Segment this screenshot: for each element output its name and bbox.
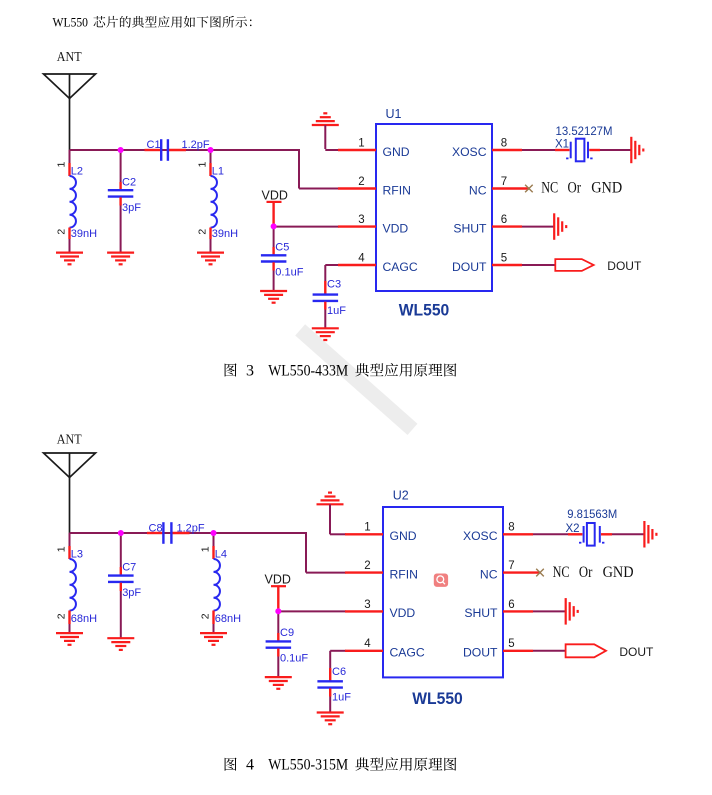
pin 4 CAGC (U1) (338, 252, 418, 273)
antenna ANT (fig2) (44, 453, 96, 533)
power VDD (fig2) (265, 573, 291, 612)
svg-text:2: 2 (364, 560, 370, 572)
svg-text:8: 8 (501, 137, 507, 149)
svg-text:9.81563M: 9.81563M (567, 509, 617, 521)
svg-text:U1: U1 (386, 107, 402, 121)
pin 1 GND (U1) (338, 137, 410, 158)
wire VDD to pin3 (fig1) (274, 226, 339, 228)
svg-text:NC: NC (469, 183, 487, 197)
node: junction at L4 (fig2) (211, 530, 217, 536)
wire pin6 to ground (fig2) (533, 610, 565, 612)
svg-text:C3: C3 (327, 279, 341, 291)
wire ground to pin1 (fig2) (330, 533, 346, 535)
node: junction at C2 (fig1) (118, 147, 124, 153)
antenna ANT (fig1) (44, 74, 96, 150)
svg-text:C7: C7 (122, 561, 136, 573)
pin 3 VDD (U2) (345, 599, 415, 620)
svg-text:1: 1 (364, 522, 370, 534)
svg-text:NC: NC (541, 180, 558, 197)
svg-text:4: 4 (358, 252, 365, 264)
svg-text:C8: C8 (149, 522, 163, 534)
svg-text:NC: NC (553, 564, 570, 581)
pin 5 DOUT (U2) (463, 638, 533, 659)
svg-text:3: 3 (364, 599, 370, 611)
svg-text:2: 2 (56, 229, 68, 235)
capacitor C6 1uF with wires (fig2) (317, 666, 351, 712)
capacitor C1 1.2pF (fig1) (145, 139, 210, 161)
svg-text:VDD: VDD (383, 221, 409, 235)
node: junction at C7 (fig2) (118, 530, 124, 536)
pin 7 NC (U1) (469, 176, 529, 197)
svg-text:WL550: WL550 (399, 301, 450, 320)
svg-text:ANT: ANT (57, 432, 82, 447)
svg-text:7: 7 (508, 560, 514, 572)
svg-text:C1: C1 (147, 139, 161, 151)
svg-text:4: 4 (246, 757, 254, 774)
ground under C7 (fig2) (107, 638, 134, 650)
svg-text:5: 5 (508, 638, 514, 650)
svg-text:SHUT: SHUT (453, 221, 487, 235)
svg-text:Or: Or (579, 564, 593, 581)
viewer search icon overlay (434, 574, 448, 587)
svg-text:2: 2 (197, 229, 209, 235)
svg-text:GND: GND (390, 529, 417, 543)
svg-text:68nH: 68nH (215, 613, 241, 625)
wire: antenna to RFIN net (fig1) (70, 149, 340, 189)
svg-text:1: 1 (200, 546, 212, 552)
pin 8 XOSC (U1) (452, 137, 522, 158)
pin 6 SHUT (U2) (464, 599, 533, 620)
svg-text:3: 3 (246, 362, 254, 379)
svg-text:NC: NC (480, 567, 498, 581)
svg-text:C5: C5 (275, 242, 289, 254)
svg-text:VDD: VDD (262, 189, 288, 203)
caption figure 3 (225, 362, 457, 379)
svg-text:XOSC: XOSC (463, 529, 498, 543)
svg-text:DOUT: DOUT (452, 260, 487, 274)
ground under C6 (fig2) (317, 713, 344, 725)
node: junction at L1 (fig1) (208, 147, 214, 153)
svg-text:39nH: 39nH (71, 228, 97, 240)
svg-text:1uF: 1uF (327, 305, 346, 317)
pin 1 GND (U2) (345, 522, 417, 543)
op-amp U1 chip WL550 (fig1) (376, 107, 492, 320)
svg-text:2: 2 (200, 613, 212, 619)
svg-text:Or: Or (568, 180, 582, 197)
svg-text:0.1uF: 0.1uF (275, 267, 303, 279)
wire: antenna to RFIN net (fig2) (70, 532, 347, 573)
svg-text:3pF: 3pF (122, 587, 141, 599)
svg-text:1: 1 (56, 162, 68, 168)
svg-text:6: 6 (508, 599, 514, 611)
ground under L4 (fig2) (200, 633, 227, 645)
svg-text:DOUT: DOUT (607, 259, 642, 273)
ground under L2 (fig1) (56, 253, 83, 265)
svg-text:RFIN: RFIN (390, 567, 418, 581)
ground under L1 (fig1) (197, 253, 224, 265)
svg-text:XOSC: XOSC (452, 145, 487, 159)
svg-text:CAGC: CAGC (390, 646, 425, 660)
svg-text:WL550-315M: WL550-315M (268, 757, 348, 774)
capacitor C9 0.1uF with wires (fig2) (266, 611, 309, 677)
svg-text:L1: L1 (212, 166, 224, 178)
pin 2 RFIN (U1) (338, 176, 411, 197)
svg-text:X1: X1 (555, 139, 569, 151)
svg-text:VDD: VDD (265, 573, 291, 587)
pin 8 XOSC (U2) (463, 522, 533, 543)
svg-text:2: 2 (358, 176, 364, 188)
wire VDD to pin3 (fig2) (278, 610, 346, 612)
pin 4 CAGC (U2) (345, 638, 425, 659)
ground under C2 (fig1) (107, 253, 134, 265)
svg-text:DOUT: DOUT (619, 645, 654, 659)
capacitor C8 1.2pF (fig2) (147, 522, 205, 544)
capacitor C7 3pF with wires (fig2) (108, 533, 141, 638)
svg-text:4: 4 (364, 638, 371, 650)
svg-text:1uF: 1uF (332, 692, 351, 704)
svg-text:DOUT: DOUT (463, 646, 498, 660)
svg-text:U2: U2 (393, 489, 409, 503)
svg-text:3pF: 3pF (122, 202, 141, 214)
ground at SHUT (fig1) (554, 213, 566, 240)
svg-text:SHUT: SHUT (464, 606, 498, 620)
header text (53, 14, 252, 29)
no-connect X at pin7 (fig2) (536, 569, 544, 577)
svg-text:7: 7 (501, 176, 507, 188)
svg-text:68nH: 68nH (71, 613, 97, 625)
svg-text:1.2pF: 1.2pF (182, 139, 210, 151)
op-amp U2 chip WL550 (fig2) (383, 489, 503, 708)
inductor L1 with wires (fig1) (197, 150, 238, 253)
svg-text:C6: C6 (332, 666, 346, 678)
port DOUT (fig2) (566, 644, 654, 659)
ANT label (fig2) (57, 432, 82, 447)
wire pin6 to ground (fig1) (522, 226, 554, 228)
ground right of X1 (fig1) (631, 137, 643, 163)
capacitor C3 1uF with wires (fig1) (313, 279, 347, 329)
svg-text:0.1uF: 0.1uF (280, 653, 308, 665)
svg-text:GND: GND (603, 564, 634, 581)
svg-text:C2: C2 (122, 176, 136, 188)
ground at SHUT (fig2) (566, 598, 578, 625)
crystal X2 9.81563M (fig2) (533, 509, 644, 545)
svg-text:C9: C9 (280, 627, 294, 639)
ground under L3 (fig2) (56, 633, 83, 645)
no-connect X at pin7 (fig1) (525, 185, 533, 193)
NC Or GND label (fig2) (553, 564, 634, 581)
inverted ground above chip (fig1) (312, 113, 339, 149)
caption figure 4 (225, 757, 457, 774)
inductor L4 with wires (fig2) (200, 533, 241, 633)
pin 3 VDD (U1) (338, 214, 408, 235)
wire pin4 to C6 (fig2) (330, 651, 346, 668)
svg-text:GND: GND (383, 145, 410, 159)
pin 7 NC (U2) (480, 560, 540, 581)
svg-text:6: 6 (501, 214, 507, 226)
svg-text:1: 1 (358, 137, 364, 149)
ground under C9 (fig2) (265, 677, 292, 689)
svg-text:ANT: ANT (57, 49, 82, 64)
svg-text:VDD: VDD (390, 606, 416, 620)
pin 5 DOUT (U1) (452, 252, 522, 273)
capacitor C2 3pF with wires (fig1) (108, 150, 141, 253)
ground right of X2 (fig2) (644, 521, 656, 548)
wire ground to pin1 (fig1) (325, 149, 339, 151)
svg-text:39nH: 39nH (212, 228, 238, 240)
wire pin4 to C3 (fig1) (325, 265, 339, 281)
inductor L2 with wires (fig1) (56, 150, 97, 253)
crystal X1 13.52127M (fig1) (522, 126, 631, 162)
node: junction VDD (fig1) (271, 223, 277, 229)
pin 2 RFIN (U2) (345, 560, 418, 581)
wire pin5 to port (fig1) (522, 264, 556, 266)
svg-text:WL550: WL550 (53, 14, 89, 29)
ground under C5 (fig1) (260, 291, 287, 303)
svg-text:1: 1 (56, 546, 68, 552)
svg-text:3: 3 (358, 214, 364, 226)
inductor L3 with wires (fig2) (56, 533, 97, 633)
svg-text:X2: X2 (566, 523, 580, 535)
svg-text:L3: L3 (71, 549, 83, 561)
svg-text:L2: L2 (71, 166, 83, 178)
pin 6 SHUT (U1) (453, 214, 522, 235)
NC Or GND label (fig1) (541, 180, 622, 197)
ground under C3 (fig1) (312, 328, 339, 340)
power VDD (fig1) (262, 189, 288, 227)
svg-text:5: 5 (501, 252, 507, 264)
svg-text:13.52127M: 13.52127M (556, 126, 613, 138)
svg-text:8: 8 (508, 522, 514, 534)
node: junction VDD (fig2) (275, 608, 281, 614)
wire pin5 to port (fig2) (533, 650, 566, 652)
svg-text:L4: L4 (215, 549, 227, 561)
svg-text:1: 1 (197, 162, 209, 168)
port DOUT (fig1) (555, 259, 642, 273)
ANT label (fig1) (57, 49, 82, 64)
capacitor C5 0.1uF with wires (fig1) (261, 226, 304, 291)
svg-text:CAGC: CAGC (383, 260, 418, 274)
svg-text:2: 2 (56, 613, 68, 619)
svg-text:RFIN: RFIN (383, 183, 411, 197)
svg-text:GND: GND (591, 180, 622, 197)
svg-text:WL550: WL550 (412, 689, 463, 708)
svg-text:1.2pF: 1.2pF (177, 522, 205, 534)
svg-text:WL550-433M: WL550-433M (268, 362, 348, 379)
inverted ground above chip (fig2) (317, 493, 344, 535)
